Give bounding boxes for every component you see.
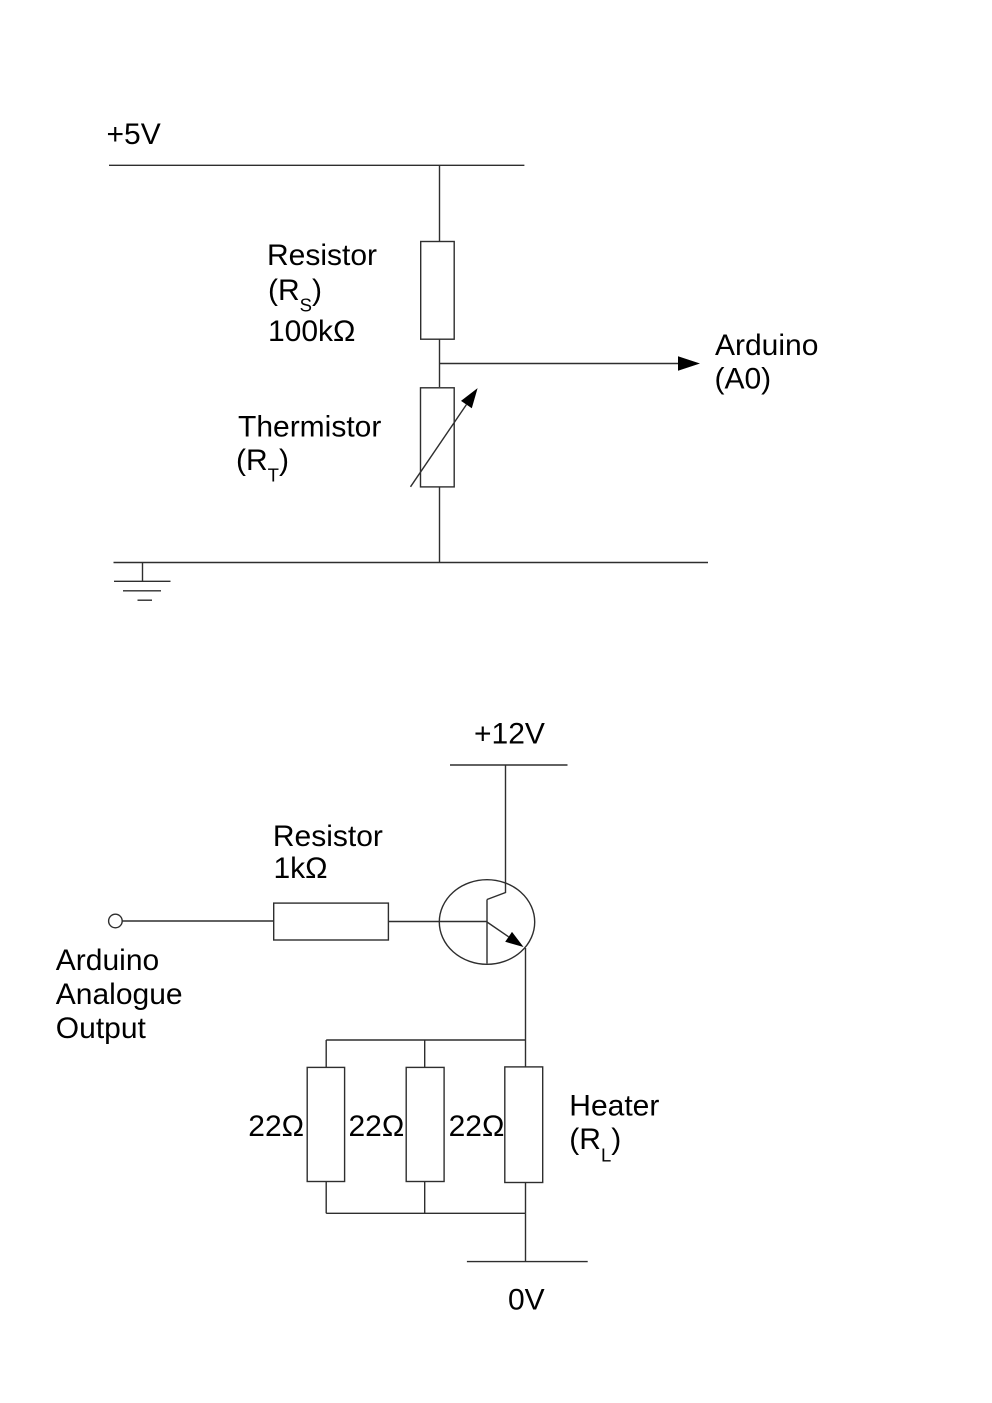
transistor Q1 base bar (486, 900, 488, 964)
net +12V rail wire (450, 764, 568, 766)
thermistor RT body (421, 388, 455, 487)
net +5V rail wire (109, 164, 524, 166)
ground symbol bar 2 (123, 590, 161, 592)
svg-text:100kΩ: 100kΩ (268, 315, 355, 348)
svg-text:(A0): (A0) (715, 363, 772, 396)
svg-text:(RS): (RS) (268, 274, 322, 316)
thermistor RT arrowhead (461, 388, 478, 408)
net 0V rail wire (467, 1261, 588, 1263)
wire: node A0 to Arduino arrow (440, 363, 678, 365)
wire: bottom bus to 0V rail (525, 1213, 527, 1261)
resistor 22a body (307, 1067, 344, 1181)
stub: top bus to resistor 22b (424, 1040, 426, 1067)
svg-text:Resistor: Resistor (273, 820, 383, 853)
stub: heater RL to bottom bus (525, 1183, 527, 1214)
wire: resistor 1k to transistor base (388, 921, 487, 923)
svg-text:Arduino: Arduino (56, 944, 159, 977)
svg-text:1kΩ: 1kΩ (274, 852, 328, 885)
svg-text:+12V: +12V (474, 718, 545, 751)
svg-text:Output: Output (56, 1012, 147, 1045)
svg-text:Heater: Heater (569, 1090, 659, 1123)
stub: resistor 22a to bottom bus (325, 1182, 327, 1214)
wire: +12V rail to transistor collector (487, 765, 506, 900)
ground symbol bar 3 (138, 599, 153, 601)
thermistor RT diagonal arrow line (411, 405, 467, 487)
resistor 22b body (406, 1067, 444, 1181)
svg-text:0V: 0V (508, 1283, 545, 1316)
transistor Q1 emitter arrowhead (505, 932, 523, 947)
wire: terminal to resistor 1k (122, 920, 274, 922)
ground rail wire (114, 562, 709, 564)
wire: RS to node A0 (439, 339, 441, 387)
resistor RS body (421, 242, 455, 340)
ground symbol bar 1 (114, 580, 171, 582)
heater resistor RL body (505, 1067, 543, 1183)
input terminal circle (109, 914, 123, 928)
svg-text:22Ω: 22Ω (449, 1110, 505, 1143)
wire: RT to ground rail (439, 487, 441, 562)
wire: transistor emitter down to heater bus (525, 948, 527, 1067)
transistor Q1 body circle (439, 880, 534, 965)
heater top bus wire (326, 1039, 525, 1041)
svg-text:Resistor: Resistor (267, 239, 377, 272)
svg-text:Analogue: Analogue (56, 978, 183, 1011)
transistor Q1 emitter line (487, 922, 509, 937)
ground symbol stub (142, 563, 144, 582)
svg-text:+5V: +5V (107, 118, 161, 151)
stub: resistor 22b to bottom bus (424, 1182, 426, 1214)
svg-text:Arduino: Arduino (715, 329, 818, 362)
svg-text:22Ω: 22Ω (349, 1110, 405, 1143)
svg-text:(RT): (RT) (236, 444, 289, 486)
arrowhead to Arduino A0 (678, 356, 700, 370)
svg-text:22Ω: 22Ω (248, 1110, 304, 1143)
resistor R 1k body (274, 903, 389, 940)
svg-text:(RL): (RL) (569, 1123, 621, 1166)
stub: top bus to resistor 22a (325, 1040, 327, 1067)
heater bottom bus wire (326, 1212, 525, 1214)
svg-text:Thermistor: Thermistor (238, 411, 381, 444)
wire: +5V rail to resistor RS (439, 165, 441, 241)
